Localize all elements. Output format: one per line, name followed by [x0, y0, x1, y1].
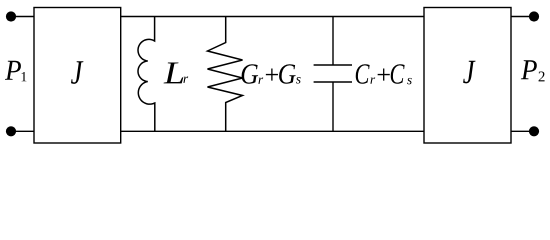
label Lr: subscript r: [183, 77, 188, 83]
capacitor Cr+Cs : bottom lead: [332, 82, 334, 131]
label P2: letter P: [521, 60, 537, 79]
wire: J2 box to P2 top terminal: [511, 16, 534, 18]
resistor (conductance) Gr+Gs: [208, 17, 243, 132]
terminal dot: port P1 top: [6, 11, 16, 21]
wire: P1 bottom terminal to J1 box: [11, 130, 34, 132]
wire: bottom rail J1 to J2: [121, 130, 424, 132]
label Gr+Gs: first G: [242, 64, 259, 83]
label J (inverter J1): [71, 61, 83, 84]
label Cr+Cs: second C: [391, 64, 405, 83]
inverter box J2: [424, 8, 511, 144]
label P2: subscript 2: [539, 71, 545, 81]
inverter box J1: [34, 8, 121, 144]
wire: P1 top terminal to J1 box: [11, 16, 34, 18]
capacitor Cr+Cs : top plate: [314, 64, 352, 66]
label Cr+Cs: plus sign: [378, 69, 390, 81]
label Cr+Cs: subscript r: [370, 77, 375, 83]
terminal dot: port P1 bottom: [6, 126, 16, 136]
wire: J2 box to P2 bottom terminal: [511, 130, 534, 132]
wire: top rail J1 to J2: [121, 16, 424, 18]
label J (inverter J2): [463, 61, 475, 84]
label Gr+Gs: second G: [279, 64, 296, 83]
label Gr+Gs: subscript s: [296, 77, 301, 83]
terminal dot: port P2 top: [529, 11, 539, 21]
label Cr+Cs: subscript s: [407, 78, 412, 84]
terminal dot: port P2 bottom: [529, 126, 539, 136]
label Gr+Gs: subscript r: [258, 78, 263, 84]
label Gr+Gs: plus sign: [266, 69, 278, 81]
label P1: letter P: [5, 61, 21, 80]
label Cr+Cs: first C: [356, 64, 370, 83]
capacitor Cr+Cs : top lead: [332, 17, 334, 66]
capacitor Cr+Cs : bottom plate: [314, 81, 352, 83]
inductor Lr: [138, 17, 155, 132]
label Lr: letter L: [164, 62, 184, 83]
label P1: subscript 1: [22, 72, 27, 81]
